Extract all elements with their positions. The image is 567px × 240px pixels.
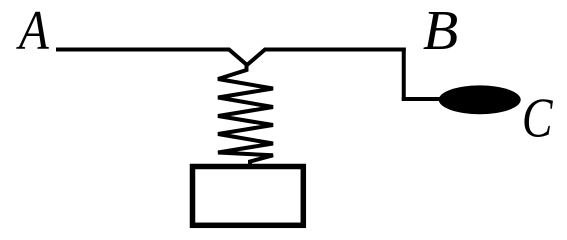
spring: [218, 63, 273, 167]
svg-text:B: B: [423, 0, 458, 62]
svg-text:C: C: [522, 87, 553, 149]
svg-text:A: A: [16, 0, 50, 62]
wire to ellipse C: [402, 97, 446, 101]
block (mass rectangle): [193, 167, 304, 226]
node A label: [16, 0, 50, 62]
wire vertical drop at B: [402, 48, 406, 102]
wire A to B (horizontal string with V-notch hook at spring): [56, 50, 406, 66]
node C label: [522, 87, 553, 149]
node B label: [423, 0, 458, 62]
ellipse C (filled body): [439, 85, 521, 114]
